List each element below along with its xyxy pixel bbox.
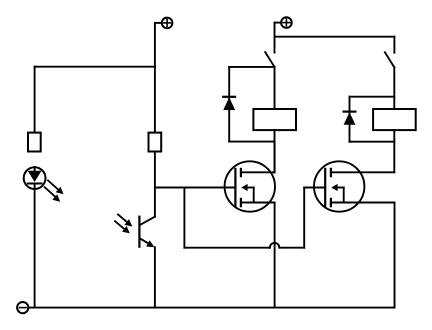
wire gate bus horizontal from collector node	[155, 187, 236, 189]
wire diode D3 vertical	[349, 97, 351, 142]
LED emission arrow 2	[45, 187, 61, 202]
switch S1 blade	[265, 52, 274, 67]
terminal plus V2	[281, 17, 292, 28]
diode D2	[223, 97, 235, 110]
wire diode D2 anode-cathode vertical	[228, 67, 230, 142]
MOSFET M2	[314, 161, 395, 211]
switch S2 top contact	[393, 37, 395, 53]
relay coil K2	[373, 109, 416, 130]
wire gate bus riser right	[303, 188, 305, 248]
wire R1 top to top-left rail	[34, 67, 36, 133]
wire plus V1 stub	[155, 22, 161, 24]
wire coil K2 bottom to M2 drain node	[393, 130, 395, 172]
LED emission arrow 1	[48, 180, 64, 194]
wire R2 bottom to collector	[154, 152, 156, 217]
diode D3	[344, 112, 356, 125]
photo incident arrow 2	[115, 221, 130, 233]
wire LED branch lower	[34, 189, 36, 307]
resistor R2	[149, 133, 162, 152]
MOSFET M1	[225, 161, 275, 211]
photo incident arrow 1	[118, 215, 132, 227]
wire gate bus bottom run right segment	[279, 247, 304, 249]
wire M1 drain up	[274, 142, 276, 173]
wire S1 to coil L1	[274, 67, 276, 109]
switch S2 blade	[385, 52, 394, 67]
wire switch S1 top contact	[274, 23, 276, 53]
wire emitter to ground rail	[154, 247, 156, 307]
wire left mid vertical upper	[154, 23, 156, 133]
wire top rail to channel 2	[275, 36, 395, 38]
wire diode D2 bottom branch	[229, 141, 274, 143]
wire gate lead M2	[304, 187, 325, 189]
wire diode D3 top branch	[350, 96, 395, 98]
wire bottom ground rail	[29, 307, 394, 309]
wire plus V2 stub	[275, 22, 281, 24]
phototransistor Q1	[139, 217, 155, 248]
terminal plus V1	[162, 18, 173, 29]
wire hop over M1 source	[270, 243, 280, 248]
wire M1 source down to ground rail	[274, 203, 276, 308]
wire diode D3 bottom branch	[350, 141, 395, 143]
wire gate bus riser left	[183, 188, 185, 248]
LED D1	[24, 167, 46, 189]
wire top-left horizontal	[35, 66, 155, 68]
terminal minus	[17, 302, 28, 313]
wire diode D2 top branch	[229, 66, 274, 68]
resistor R1	[28, 133, 41, 152]
wire coil K1 bottom to drain node	[274, 130, 276, 172]
wire S2 to coil L2	[393, 67, 395, 109]
relay coil K1	[253, 109, 296, 130]
wire gate bus bottom run left segment	[184, 247, 269, 249]
wire M2 source down to ground rail	[394, 203, 396, 308]
